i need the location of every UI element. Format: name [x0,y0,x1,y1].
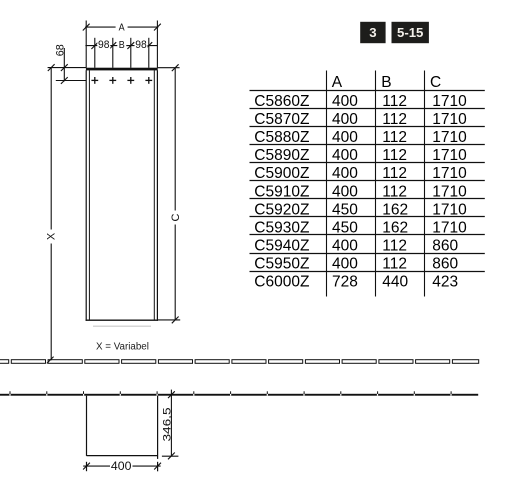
svg-text:C5890Z: C5890Z [254,147,309,164]
svg-text:B: B [381,74,391,91]
wall section band [0,360,479,364]
svg-text:162: 162 [382,220,408,237]
svg-text:C: C [170,213,182,221]
table row C6000Z [254,274,458,291]
svg-text:5-15: 5-15 [397,25,423,40]
svg-text:C5910Z: C5910Z [254,183,309,200]
svg-text:68: 68 [55,44,67,56]
svg-text:A: A [119,22,125,34]
table row C5900Z [254,165,467,182]
svg-text:112: 112 [382,129,407,146]
dimension 98-B-98 [85,38,157,68]
svg-text:3: 3 [369,25,376,40]
svg-text:98: 98 [98,39,110,51]
table row C5870Z [254,111,467,128]
badge 5-15 [392,22,429,43]
svg-text:112: 112 [382,165,407,182]
svg-text:1710: 1710 [432,129,467,146]
svg-text:728: 728 [332,274,358,291]
svg-text:C5950Z: C5950Z [254,256,309,273]
svg-text:860: 860 [432,256,458,273]
svg-text:112: 112 [382,93,407,110]
svg-text:C5920Z: C5920Z [254,201,309,218]
table row C5930Z [254,220,467,237]
svg-text:B: B [119,39,125,51]
svg-text:C6000Z: C6000Z [254,274,309,291]
svg-text:C5900Z: C5900Z [254,165,309,182]
table row C5880Z [254,129,467,146]
table row C5950Z [254,256,458,273]
badge 3 [360,22,385,43]
dimension C [157,64,182,323]
svg-text:162: 162 [382,201,408,218]
svg-text:C5940Z: C5940Z [254,238,309,255]
dimension 400 [83,460,161,473]
svg-text:400: 400 [332,256,358,273]
svg-text:1710: 1710 [432,201,467,218]
table row C5860Z [254,93,467,110]
svg-text:1710: 1710 [432,183,467,200]
svg-text:C5860Z: C5860Z [254,93,309,110]
dimension A [83,21,161,68]
svg-text:C: C [430,74,441,91]
svg-text:1710: 1710 [432,165,467,182]
svg-text:112: 112 [382,238,407,255]
svg-text:98: 98 [135,39,147,51]
table row C5920Z [254,201,467,218]
table grid [250,71,485,297]
svg-text:X = Variabel: X = Variabel [96,341,149,352]
svg-text:1710: 1710 [432,93,467,110]
svg-text:346,5: 346,5 [162,408,174,442]
svg-text:400: 400 [332,93,358,110]
svg-text:C5870Z: C5870Z [254,111,309,128]
svg-text:112: 112 [382,111,407,128]
svg-text:400: 400 [332,129,358,146]
svg-text:A: A [332,74,343,91]
svg-text:423: 423 [432,274,458,291]
svg-text:860: 860 [432,238,458,255]
dimension 346,5 [162,390,179,460]
svg-text:400: 400 [332,111,358,128]
svg-text:X: X [46,232,58,240]
svg-text:1710: 1710 [432,147,467,164]
svg-text:112: 112 [382,147,407,164]
radiator outline [86,68,158,327]
floor line [0,391,478,395]
table row C5940Z [254,238,458,255]
table row C5890Z [254,147,467,164]
svg-text:112: 112 [382,256,407,273]
dimension X [45,64,87,363]
svg-text:400: 400 [332,183,358,200]
svg-text:450: 450 [332,201,358,218]
recess box [87,396,158,472]
dimension 68 [55,44,87,84]
mounting hole crosses [91,77,152,84]
table row C5910Z [254,183,467,200]
svg-text:1710: 1710 [432,220,467,237]
svg-text:450: 450 [332,220,358,237]
svg-text:400: 400 [332,147,358,164]
svg-text:112: 112 [382,183,407,200]
svg-text:400: 400 [332,238,358,255]
svg-text:440: 440 [382,274,408,291]
svg-text:C5880Z: C5880Z [254,129,309,146]
svg-text:C5930Z: C5930Z [254,220,309,237]
svg-text:400: 400 [332,165,358,182]
table header A B C [332,74,441,91]
svg-text:400: 400 [111,461,132,473]
svg-text:1710: 1710 [432,111,467,128]
